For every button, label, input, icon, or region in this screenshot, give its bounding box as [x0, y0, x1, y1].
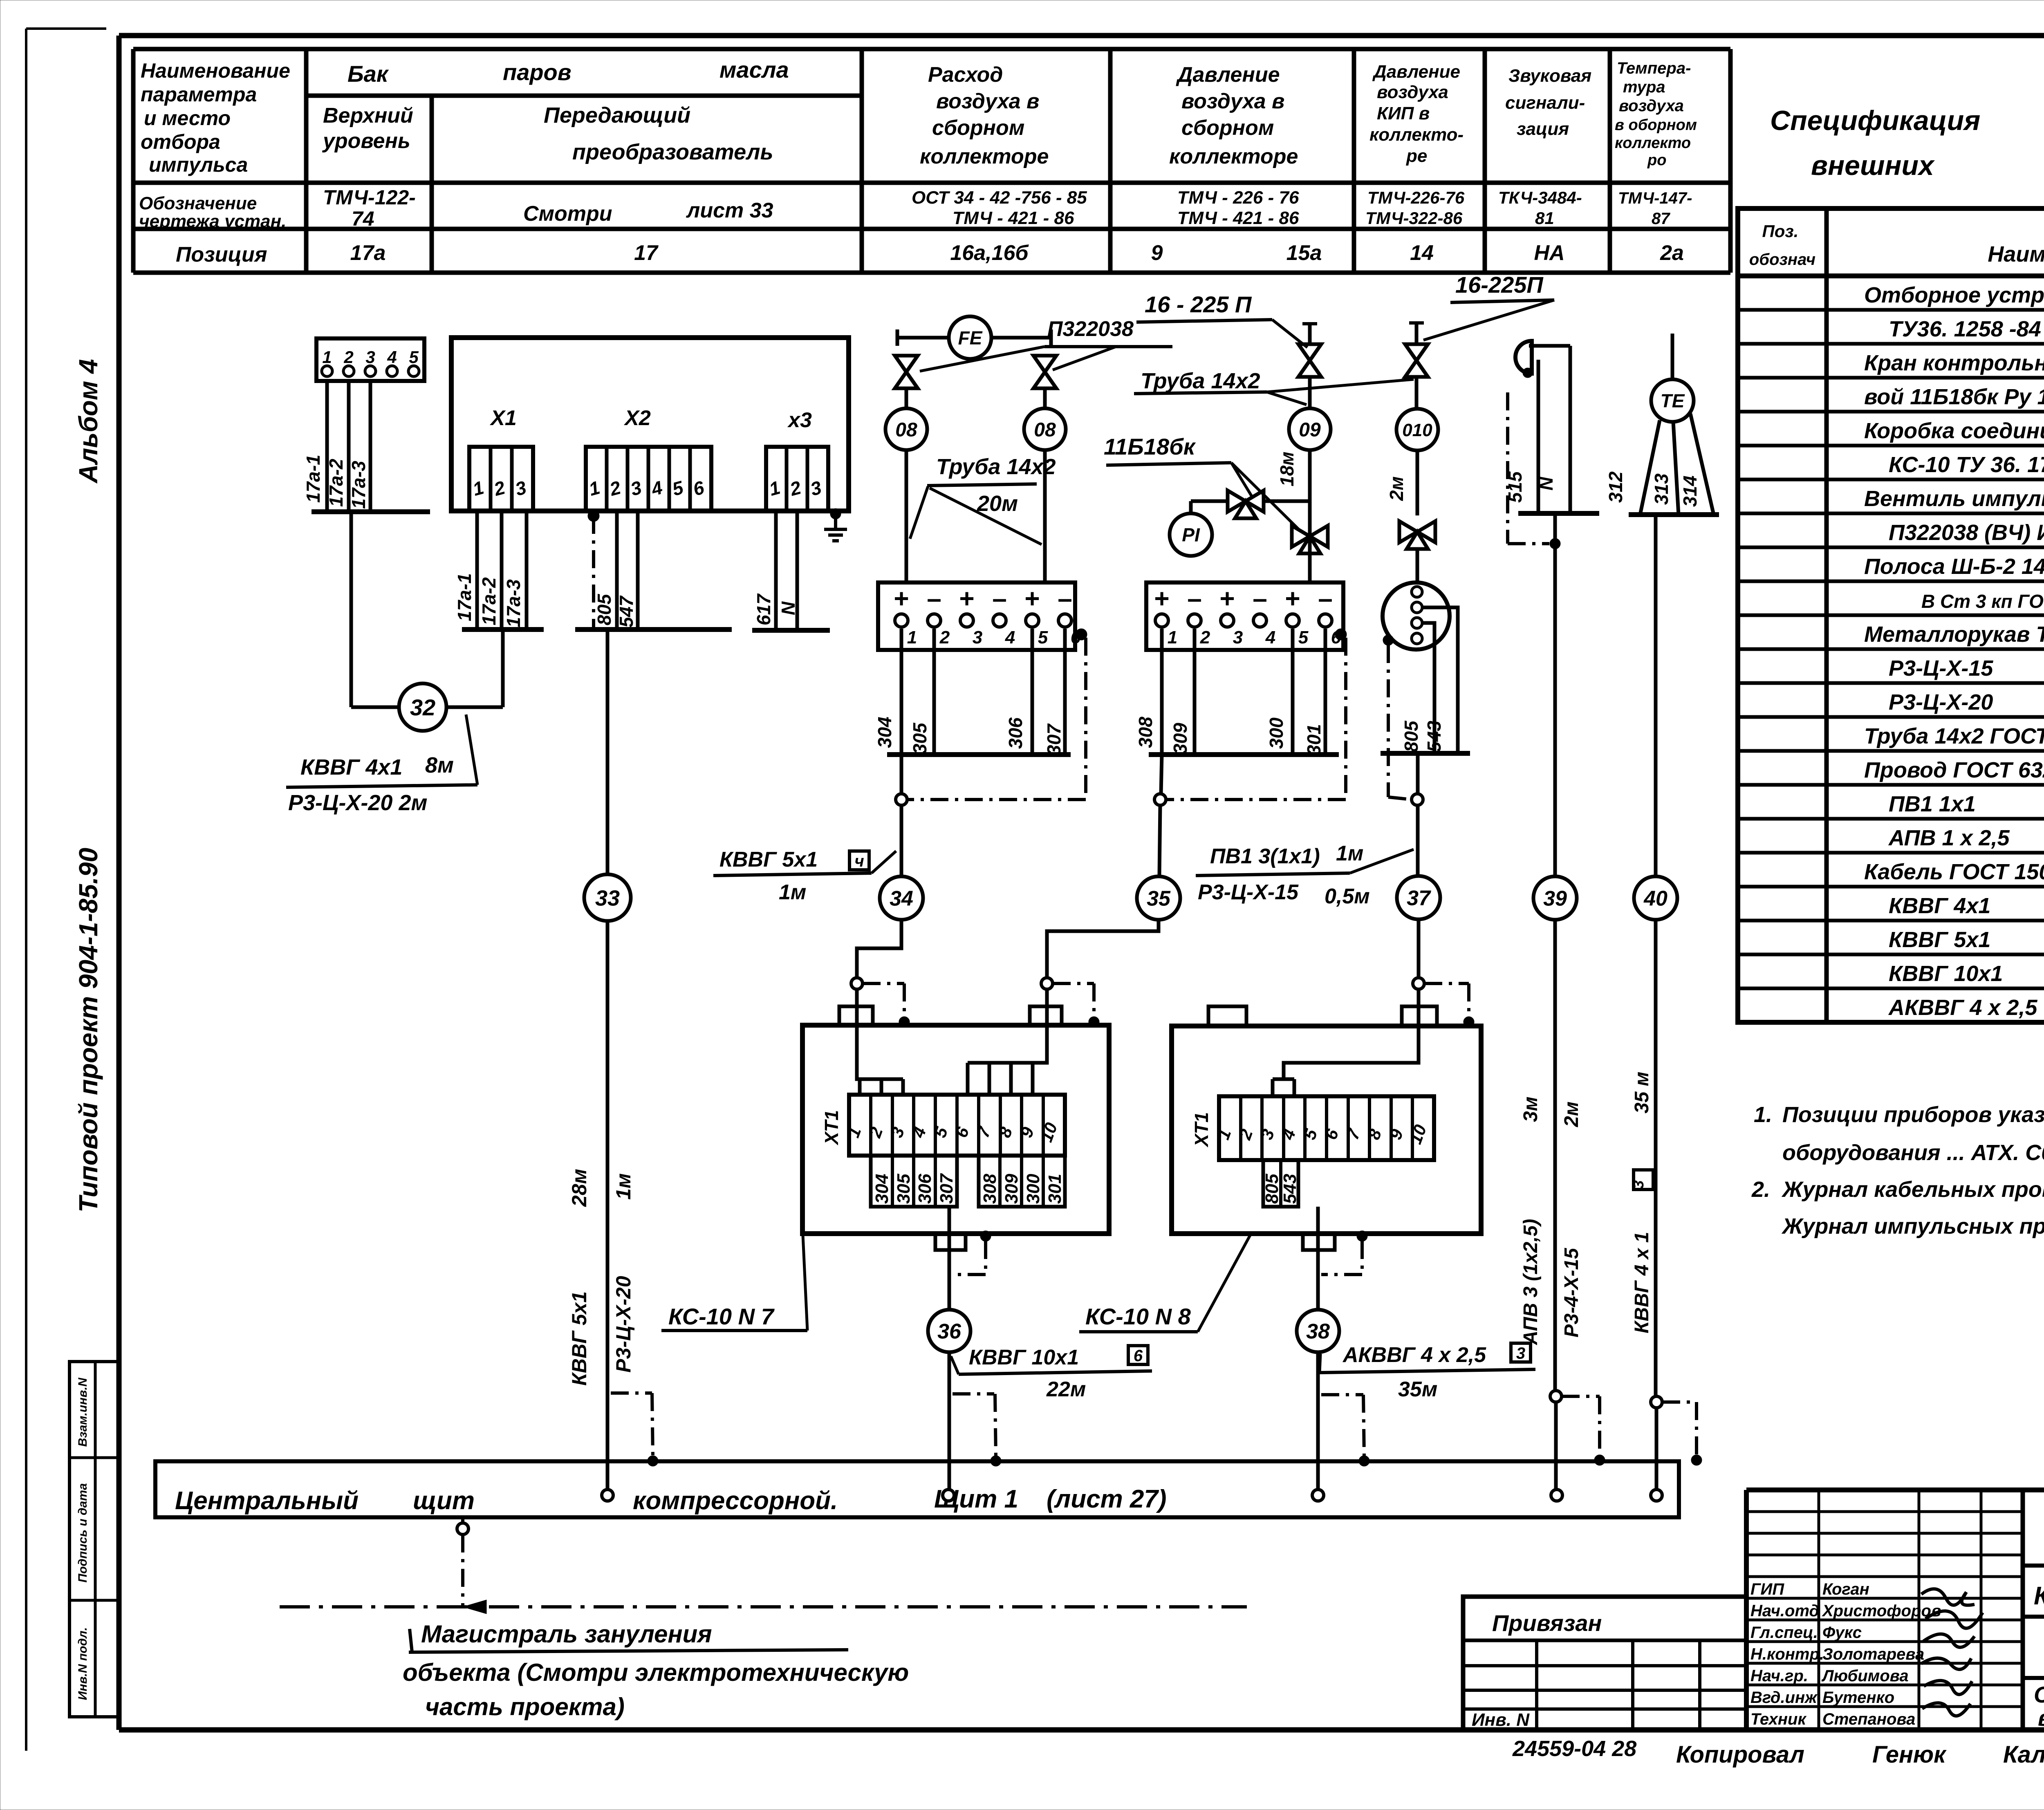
wire 34 upper — [900, 755, 903, 794]
svg-text:Наименование: Наименование — [141, 59, 290, 82]
svg-text:воздуха в: воздуха в — [1181, 90, 1284, 113]
instrument TE — [1651, 379, 1694, 422]
shield dash-dot wire38 bottom — [1321, 1393, 1363, 1396]
tube 1 segment — [905, 388, 908, 408]
spec row line 5 — [1738, 444, 2044, 448]
bus under X2 — [575, 627, 732, 632]
svg-text:оборудования ... АТХ. С01: оборудования ... АТХ. С01. — [1782, 1140, 2044, 1165]
line circle 08b — [1024, 408, 1066, 450]
central panel bus — [155, 1461, 1679, 1517]
bus under TE — [1629, 512, 1719, 517]
svg-text:КВВГ 5х1: КВВГ 5х1 — [1889, 927, 1990, 952]
instrument FE — [949, 316, 991, 359]
svg-text:+: + — [1154, 584, 1169, 613]
wire 17a-3 under X1 — [525, 511, 529, 629]
svg-text:1: 1 — [322, 347, 332, 367]
svg-text:17а-2: 17а-2 — [325, 459, 347, 507]
svg-text:Взам.инв.N: Взам.инв.N — [76, 1377, 90, 1447]
svg-text:1м: 1м — [779, 880, 806, 904]
flange tick right — [1049, 329, 1053, 346]
svg-text:304: 304 — [874, 717, 895, 748]
tube 09 down to strip2 — [1308, 450, 1312, 582]
bus under horn — [1518, 511, 1599, 516]
box2 comb bar — [1273, 1077, 1294, 1081]
svg-text:543: 543 — [1280, 1174, 1300, 1204]
svg-text:АКВВГ 4 х 2,5: АКВВГ 4 х 2,5 — [1888, 995, 2037, 1020]
wire 314 — [1690, 414, 1714, 515]
wire 40 lower — [1654, 920, 1658, 1396]
svg-text:чертежа устан.: чертежа устан. — [139, 211, 286, 231]
svg-text:35 м: 35 м — [1631, 1072, 1653, 1113]
svg-text:тура: тура — [1623, 78, 1665, 96]
svg-text:6: 6 — [1134, 1347, 1143, 1365]
wire above TE — [1671, 334, 1674, 379]
svg-text:543: 543 — [1423, 721, 1445, 752]
leader to box1 — [803, 1235, 807, 1331]
svg-text:2м: 2м — [1561, 1102, 1582, 1127]
svg-text:8м: 8м — [425, 753, 454, 777]
instrument box X1-X3 — [451, 338, 849, 511]
shield dash-dot from connector — [1387, 645, 1390, 797]
shield dash-dot box1 left — [863, 982, 904, 985]
wire 33 lower — [606, 921, 610, 1490]
svg-text:300: 300 — [1266, 717, 1287, 749]
svg-text:3: 3 — [1516, 1344, 1525, 1362]
svg-text:ТМЧ - 421 - 86: ТМЧ - 421 - 86 — [953, 208, 1074, 228]
svg-text:PI: PI — [1182, 524, 1200, 546]
svg-text:КИП в: КИП в — [1377, 103, 1430, 123]
svg-text:КС-10 N 7: КС-10 N 7 — [668, 1304, 775, 1329]
wire 36 lower — [948, 1352, 951, 1490]
svg-text:2м: 2м — [1386, 476, 1407, 501]
box2 wire labels 805 543 — [1263, 1160, 1298, 1207]
cable circle 37 — [1397, 876, 1440, 919]
svg-text:Фукс: Фукс — [1822, 1624, 1862, 1642]
spec row line 14 — [1738, 749, 2044, 753]
svg-text:306: 306 — [915, 1174, 935, 1204]
sig col line 4846 — [1980, 1490, 1983, 1730]
leader to wire 37 — [1350, 849, 1414, 873]
svg-text:34: 34 — [890, 887, 913, 911]
leader to valve 09 — [1272, 320, 1307, 347]
svg-text:Инв.N подл.: Инв.N подл. — [76, 1627, 90, 1700]
shield dot strip2 — [1335, 629, 1347, 640]
svg-text:Степанова: Степанова — [1822, 1710, 1915, 1728]
svg-text:Вентиль импульсный муфтовый: Вентиль импульсный муфтовый — [1864, 486, 2044, 511]
plus-minus strip 2 — [1146, 582, 1343, 650]
box1 comb stub 2209 — [901, 1079, 905, 1095]
svg-text:5: 5 — [1298, 627, 1309, 647]
svg-text:Обозначение: Обозначение — [139, 193, 257, 213]
svg-text:коллекто: коллекто — [1615, 134, 1691, 152]
svg-text:1.: 1. — [1754, 1102, 1772, 1127]
svg-text:Альбом 4: Альбом 4 — [74, 359, 103, 484]
shield dash-dot strip2 — [1344, 638, 1347, 797]
svg-text:Нач.отд: Нач.отд — [1750, 1602, 1819, 1620]
bus terminal circle wire 38 — [1312, 1490, 1324, 1501]
svg-text:FE: FE — [958, 327, 983, 349]
svg-text:Звуковая: Звуковая — [1508, 66, 1591, 86]
param table vline 4233 — [1728, 49, 1733, 273]
svg-text:Коробка соединительная: Коробка соединительная — [1864, 419, 2044, 443]
sig col line 4449 — [1818, 1490, 1820, 1730]
param table bottom — [133, 271, 1730, 275]
bus under X3 — [752, 628, 830, 633]
junction dot wire 39 — [1550, 538, 1560, 549]
svg-text:Магистраль зануления: Магистраль зануления — [421, 1620, 712, 1648]
svg-text:ПВ1 1х1: ПВ1 1х1 — [1889, 792, 1976, 816]
svg-text:КВВГ 4 х 1: КВВГ 4 х 1 — [1631, 1232, 1653, 1333]
box2 cable exit — [1303, 1234, 1335, 1250]
spec row line 6 — [1738, 478, 2044, 482]
wire into circle 32 — [351, 706, 399, 709]
line circle 09 — [1289, 408, 1331, 450]
svg-text:3: 3 — [1233, 627, 1243, 647]
svg-text:в оборном: в оборном — [1615, 116, 1697, 134]
svg-text:Бутенко: Бутенко — [1822, 1689, 1894, 1707]
svg-text:35м: 35м — [1398, 1378, 1437, 1401]
svg-text:Гл.спец.: Гл.спец. — [1750, 1624, 1818, 1642]
svg-text:308: 308 — [1135, 717, 1156, 748]
sig row line 4069 — [1746, 1662, 2023, 1665]
three-way valve on tube 010 — [1399, 521, 1435, 549]
param table vline 3632 — [1483, 49, 1487, 273]
sig row line 4175 — [1746, 1705, 2023, 1708]
tick before Магистраль text — [410, 1629, 412, 1652]
svg-text:+: + — [959, 584, 974, 613]
cable circle 40 — [1634, 876, 1677, 920]
sig row line 3751 — [1746, 1532, 2023, 1535]
svg-text:ОСТ 34 - 42 -756 - 85: ОСТ 34 - 42 -756 - 85 — [912, 188, 1087, 208]
shield circle above box2 — [1413, 978, 1424, 989]
line valve to tube 09 — [1265, 500, 1310, 503]
connector КС circle — [1383, 582, 1450, 650]
spec row line 9 — [1738, 580, 2044, 583]
svg-text:3м: 3м — [1520, 1097, 1542, 1122]
svg-text:Позиции приборов ук: Позиции приборов указаны по спецификации — [1782, 1102, 2044, 1127]
svg-text:сборном: сборном — [1181, 116, 1274, 140]
svg-text:2.: 2. — [1751, 1177, 1770, 1202]
svg-text:объекта (Смотри электротехн: объекта (Смотри электротехническую — [403, 1659, 909, 1686]
svg-text:ХТ1: ХТ1 — [821, 1110, 842, 1146]
title block left — [1744, 1490, 1749, 1730]
svg-text:Давление: Давление — [1372, 62, 1460, 82]
spec row line 7 — [1738, 512, 2044, 515]
shield dash-dot wire 33 bottom — [611, 1391, 652, 1395]
svg-text:3: 3 — [973, 627, 982, 647]
tube 2 segment — [1043, 388, 1047, 408]
cable circle 34 — [880, 876, 923, 920]
svg-text:309: 309 — [1002, 1174, 1022, 1204]
wire 312 — [1640, 420, 1660, 515]
svg-text:Верхний: Верхний — [323, 104, 413, 128]
junction box КС-10 N7 — [802, 1025, 1109, 1234]
param table vline 3312 — [1352, 49, 1356, 273]
line circle 010 — [1396, 409, 1438, 450]
svg-text:П322038: П322038 — [1047, 317, 1134, 341]
mini bus under strip2 — [1149, 752, 1339, 757]
svg-text:309: 309 — [1170, 723, 1191, 754]
svg-text:–: – — [1318, 584, 1333, 613]
svg-text:805: 805 — [594, 594, 615, 625]
outer sheet edge line — [25, 29, 27, 1751]
strip2 wire at 2842 — [1160, 629, 1164, 755]
svg-text:П322038 (ВЧ) Исп 5 Ру1,6МПа: П322038 (ВЧ) Исп 5 Ру1,6МПаДу=15 — [1889, 520, 2044, 545]
impulse line at FE — [897, 336, 1051, 340]
svg-text:36: 36 — [937, 1320, 961, 1344]
svg-text:В Ст 3 кп ГОСТ 535-79: В Ст 3 кп ГОСТ 535-79 — [1921, 591, 2044, 612]
svg-text:Кальку: Кальку — [2003, 1741, 2044, 1768]
shield dot on ground bus (39) — [1594, 1455, 1605, 1465]
spec row line 2 — [1738, 342, 2044, 346]
svg-text:ПВ1 3(1х1): ПВ1 3(1х1) — [1210, 845, 1320, 868]
param table vline 2716 — [1108, 49, 1113, 273]
svg-text:зация: зация — [1517, 119, 1569, 139]
leader to box2 — [1198, 1235, 1250, 1332]
svg-text:Передающий: Передающий — [544, 103, 690, 128]
label leader to circle 32 — [466, 715, 477, 785]
svg-text:ро: ро — [1647, 152, 1666, 169]
cable circle 35 — [1137, 876, 1180, 920]
svg-text:08: 08 — [895, 419, 917, 441]
shield dot on box2 top — [1464, 1017, 1474, 1027]
strip1 wire at 2605 — [1063, 629, 1067, 755]
spec vline 4468 — [1824, 208, 1829, 1022]
svg-text:НА: НА — [1534, 241, 1564, 265]
svg-text:306: 306 — [1005, 717, 1026, 749]
flange tick left — [896, 329, 899, 346]
spec row line 8 — [1738, 546, 2044, 549]
strip1 wire at 2285 — [932, 629, 936, 755]
wire 805 under X2 — [615, 511, 619, 629]
svg-text:Р3-Ц-Х-20 2м: Р3-Ц-Х-20 2м — [288, 791, 427, 815]
svg-text:Вгд.инж: Вгд.инж — [1750, 1689, 1818, 1707]
svg-text:16а,16б: 16а,16б — [950, 241, 1029, 265]
svg-text:Коган: Коган — [1822, 1580, 1869, 1598]
svg-text:уровень: уровень — [322, 129, 410, 153]
svg-text:Р3-4-Х-15: Р3-4-Х-15 — [1561, 1248, 1582, 1337]
strip2 wire at 3162 — [1291, 629, 1295, 755]
svg-text:Н.контр.: Н.контр. — [1750, 1645, 1824, 1663]
svg-text:ГИП: ГИП — [1750, 1580, 1784, 1598]
svg-text:09: 09 — [1299, 419, 1321, 441]
instrument PI — [1170, 513, 1212, 556]
svg-text:11Б18бк: 11Б18бк — [1104, 434, 1196, 459]
shield circle wire 35 — [1154, 794, 1166, 805]
box1 comb stub 2156 — [880, 1079, 883, 1095]
shield dot on box1 top right — [1089, 1017, 1099, 1027]
shield dash-dot wire 39 — [1562, 1395, 1600, 1398]
svg-text:х3: х3 — [787, 408, 812, 432]
svg-text:ТМЧ-226-76: ТМЧ-226-76 — [1367, 188, 1465, 207]
svg-text:547: 547 — [616, 595, 637, 627]
leader to valve 2 — [1053, 347, 1116, 370]
param table row line 1 — [133, 181, 1730, 185]
spec row line 1 — [1738, 308, 2044, 312]
spec row line 15 — [1738, 783, 2044, 787]
svg-text:Золотарева: Золотарева — [1822, 1645, 1924, 1663]
wire 37 upper — [1416, 753, 1420, 794]
spec row line 20 — [1738, 953, 2044, 957]
svg-text:Х1: Х1 — [489, 406, 517, 430]
svg-text:33: 33 — [595, 886, 620, 910]
title row line 3 — [2023, 1676, 2044, 1680]
svg-text:N: N — [1535, 477, 1557, 491]
param table vline 326 — [131, 49, 136, 273]
plus-minus strip 1 — [878, 582, 1075, 650]
tube 2 down to strip — [1043, 450, 1047, 582]
box1 comb stub 2103 — [858, 1079, 862, 1095]
spec row line 18 — [1738, 885, 2044, 889]
svg-text:9: 9 — [1151, 241, 1163, 265]
svg-text:300: 300 — [1023, 1174, 1043, 1204]
terminal circle to ground main — [457, 1523, 468, 1534]
svg-text:2: 2 — [939, 627, 950, 647]
bus under 17a box — [312, 509, 430, 514]
svg-text:305: 305 — [894, 1174, 914, 1204]
shield dash-dot box2 bottom — [1360, 1241, 1364, 1275]
svg-text:1: 1 — [1168, 627, 1177, 647]
PI connection horizontal — [1191, 500, 1226, 503]
shield dot on ground bus (36) — [991, 1456, 1001, 1466]
terminal box 17a — [316, 338, 424, 381]
svg-text:Х2: Х2 — [623, 406, 651, 430]
svg-text:Любимова: Любимова — [1821, 1667, 1909, 1685]
svg-text:ТМЧ - 421 - 86: ТМЧ - 421 - 86 — [1177, 208, 1299, 228]
box1 cable exit — [935, 1234, 966, 1250]
svg-text:3: 3 — [365, 347, 375, 367]
svg-text:37: 37 — [1407, 887, 1431, 910]
svg-text:ХТ1: ХТ1 — [1191, 1112, 1212, 1148]
svg-text:Р3-Ц-Х-20: Р3-Ц-Х-20 — [1889, 690, 1993, 715]
svg-text:1: 1 — [907, 627, 917, 647]
wire 17a-2 under X1 — [500, 511, 504, 629]
svg-text:Труба 14х2: Труба 14х2 — [936, 455, 1056, 479]
wire up to X1 bus — [501, 629, 505, 707]
spec header underline — [1738, 273, 2044, 278]
wire 39 upper — [1553, 513, 1557, 876]
svg-text:компрессорной.: компрессорной. — [633, 1487, 838, 1515]
sig row line 3963 — [1746, 1619, 2023, 1622]
svg-text:Спецификация: Спецификация — [1770, 105, 1980, 136]
svg-text:обознач: обознач — [1749, 251, 1815, 269]
wire 313 — [1673, 422, 1679, 515]
shield dash-dot wire36 bottom — [953, 1392, 994, 1396]
mini bus under strip1 — [887, 752, 1071, 757]
wire 35 upper — [1161, 755, 1162, 794]
wire 617 under X3 — [774, 511, 778, 630]
box1 comb stub 2526 — [1031, 1063, 1035, 1095]
line circle 08a — [885, 408, 927, 450]
sig row line 4016 — [1746, 1640, 2023, 1643]
valve on tube 09 — [1298, 344, 1321, 377]
param table Бак header underline — [306, 94, 862, 98]
Привязан box — [1463, 1597, 1746, 1730]
svg-text:617: 617 — [753, 593, 774, 625]
svg-text:4: 4 — [387, 347, 397, 367]
svg-text:ч: ч — [854, 852, 864, 870]
svg-text:Металлорукав ТУ22-5570-83: Металлорукав ТУ22-5570-83 — [1864, 622, 2044, 647]
svg-text:20м: 20м — [977, 491, 1018, 516]
svg-text:308: 308 — [980, 1174, 1000, 1204]
terminal strip X2 — [586, 447, 711, 511]
svg-text:Провод ГОСТ 6323 - 79Е: Провод ГОСТ 6323 - 79Е — [1864, 758, 2044, 782]
svg-text:74: 74 — [352, 207, 374, 230]
title block divider main — [2021, 1490, 2025, 1730]
svg-text:40: 40 — [1643, 887, 1667, 911]
svg-text:Позиция: Позиция — [176, 243, 267, 267]
sig row line 3910 — [1746, 1597, 2023, 1600]
spec row line 21 — [1738, 987, 2044, 990]
svg-text:Расход: Расход — [928, 63, 1003, 87]
terminal strip XT1 box2 — [1219, 1096, 1434, 1160]
svg-text:14: 14 — [1410, 241, 1434, 265]
bus under connector — [1381, 751, 1470, 756]
svg-text:305: 305 — [909, 722, 930, 754]
wire 36 upper — [948, 1207, 951, 1310]
sig row line 4122 — [1746, 1684, 2023, 1687]
svg-text:Р3-Ц-Х-15: Р3-Ц-Х-15 — [1889, 656, 1993, 681]
svg-text:(лист 27): (лист 27) — [1047, 1485, 1167, 1513]
svg-text:сборном: сборном — [932, 116, 1024, 140]
svg-text:+: + — [1219, 584, 1235, 613]
svg-text:и место: и место — [144, 107, 231, 130]
horn shield dash-dot — [1506, 392, 1509, 544]
strip2 wire at 2922 — [1193, 629, 1197, 755]
svg-text:щит: щит — [413, 1487, 475, 1515]
leader to valve 010 — [1423, 300, 1554, 340]
wire 547 under X2 — [636, 511, 640, 629]
svg-text:КВВГ 10х1: КВВГ 10х1 — [1889, 961, 2003, 986]
junction dot under X2 pin1 — [588, 510, 599, 522]
valve on tube 2 — [1033, 356, 1056, 388]
box1 comb stub 2473 — [1009, 1063, 1013, 1095]
spec table frame — [1738, 208, 2044, 1022]
spec row line 3 — [1738, 376, 2044, 380]
svg-text:2: 2 — [1200, 627, 1210, 647]
svg-text:отбора: отбора — [141, 130, 220, 153]
svg-text:Бак: Бак — [347, 61, 389, 87]
param table vline 749 — [304, 49, 309, 273]
shield dot on ground bus (33) — [648, 1456, 658, 1466]
svg-text:4: 4 — [1005, 627, 1015, 647]
box2 cable entry left — [1208, 1006, 1246, 1026]
box1 comb stub 2367 — [966, 1063, 970, 1095]
svg-text:17а-3: 17а-3 — [503, 579, 524, 627]
strip1 wire at 2205 — [900, 629, 903, 755]
svg-text:Схема соединений: Схема соединений — [2034, 1682, 2044, 1707]
wire from circle 32 right — [446, 706, 503, 709]
svg-text:+: + — [1024, 584, 1040, 613]
shield dot on ground bus (38) — [1359, 1456, 1369, 1466]
svg-text:КВВГ 4х1: КВВГ 4х1 — [300, 755, 402, 780]
svg-text:преобразователь: преобразователь — [572, 140, 773, 164]
param table top — [133, 47, 1730, 52]
svg-text:301: 301 — [1045, 1174, 1065, 1204]
svg-text:параметра: параметра — [141, 83, 257, 106]
svg-text:314: 314 — [1679, 475, 1701, 507]
leader to 3way valve 2 — [1231, 463, 1299, 530]
svg-text:313: 313 — [1651, 473, 1672, 505]
ground main line (Магистраль) — [280, 1605, 1247, 1608]
svg-text:Христофоров: Христофоров — [1822, 1602, 1941, 1620]
svg-text:внешних проводок: внешних проводок — [2038, 1705, 2044, 1731]
wire 37 to box2 — [1417, 919, 1421, 978]
ground symbol at X3 — [824, 514, 847, 541]
wire N under X3 — [796, 511, 799, 630]
svg-text:Привязан: Привязан — [1492, 1610, 1602, 1636]
tube 010 segment — [1416, 450, 1419, 515]
